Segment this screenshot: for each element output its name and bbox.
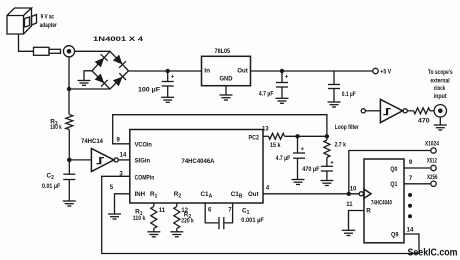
ground R2 (170, 232, 183, 237)
resistor R2 220k (pin 12) (174, 203, 194, 232)
svg-text:GND: GND (220, 76, 233, 83)
svg-text:Out: Out (237, 67, 248, 74)
wire jack to bridge top (75, 50, 110, 52)
wire node to inverter input (69, 159, 91, 161)
svg-text:1N4001 X 4: 1N4001 X 4 (93, 36, 144, 43)
resistor 15k (269, 133, 285, 149)
ground 4.7uF supply (276, 87, 289, 103)
svg-text:10: 10 (350, 186, 357, 192)
Q9 pin 14 label (407, 227, 414, 233)
svg-text:11: 11 (346, 202, 353, 208)
svg-text:+: + (285, 75, 289, 81)
svg-text:COMPin: COMPin (135, 175, 155, 182)
junction R3/C2/inverter node (67, 158, 72, 163)
X1024 terminal (425, 140, 439, 153)
ground R1 (147, 232, 160, 237)
svg-text:15 k: 15 k (270, 142, 281, 149)
ground at bridge left (78, 71, 93, 86)
ground C2 (63, 180, 76, 207)
wire bridge to regulator (129, 70, 202, 72)
junction C4 node (166, 69, 170, 73)
capacitor C1 0.001 uF (pins 6-7) (205, 203, 264, 229)
BNC connector to scope (428, 69, 453, 117)
schmitt trigger buffer U3 (380, 99, 407, 122)
VCO out wire pin 4 (263, 186, 359, 194)
svg-text:74HC14: 74HC14 (81, 138, 103, 145)
power jack J1 (63, 46, 74, 57)
loop filter label (335, 124, 359, 131)
wire jack down to bottom node (68, 57, 70, 89)
ground BNC (434, 117, 447, 130)
svg-text:9 V ac: 9 V ac (41, 13, 55, 20)
barrel plug (34, 47, 61, 55)
svg-text:14: 14 (407, 227, 414, 233)
Q1 wire pin 7 (404, 176, 431, 184)
resistor R3 100k (50, 89, 73, 158)
wire adapter to plug (19, 34, 34, 51)
svg-text:To scope's: To scope's (428, 69, 453, 76)
svg-text:11: 11 (159, 208, 166, 214)
capacitor 4.7 uF (supply) (259, 71, 289, 97)
svg-text:Out: Out (248, 191, 259, 198)
junction X1024 tap (347, 192, 351, 196)
wire inverter to SIGin pin 14 (118, 153, 130, 160)
svg-text:0.01 µF: 0.01 µF (42, 183, 60, 190)
junction C5 node (280, 69, 284, 73)
ground 0.1uF (328, 89, 341, 108)
VCO control wire (pin 9 net) (113, 115, 327, 144)
svg-text:SIGin: SIGin (135, 157, 151, 164)
svg-text:adapter: adapter (40, 22, 58, 29)
svg-text:Q1: Q1 (390, 181, 397, 188)
svg-text:470 µF: 470 µF (302, 166, 319, 173)
svg-text:INH: INH (135, 191, 146, 198)
watermark (408, 247, 458, 258)
ellipsis outputs omitted (408, 193, 412, 218)
reset wire pin 11 (346, 202, 364, 230)
ground reset (342, 230, 356, 235)
ground 100uF (161, 86, 174, 102)
PC2 wire pin 13 (262, 127, 269, 137)
9 V ac adapter (7, 8, 57, 34)
resistor 470 (414, 108, 431, 125)
X256 terminal (427, 174, 438, 187)
capacitor 0.1 uF (328, 71, 356, 98)
svg-text:SeekIC.com: SeekIC.com (408, 247, 458, 258)
svg-text:In: In (204, 67, 210, 74)
svg-text:220 k: 220 k (181, 218, 194, 225)
junction node A (295, 134, 299, 138)
wire R5 to BNC (430, 110, 434, 112)
junction bottom node (67, 87, 71, 91)
svg-text:13: 13 (262, 127, 269, 133)
svg-text:4.7 µF: 4.7 µF (259, 90, 274, 97)
svg-text:+: + (171, 74, 175, 80)
svg-text:X512: X512 (427, 158, 437, 165)
wire input to buffer (365, 110, 380, 112)
ground 470uF (320, 171, 333, 186)
svg-text:X1024: X1024 (425, 140, 439, 147)
bridge rectifier 1N4001 X 4 (92, 36, 144, 89)
resistor R1 110k (pin 11) (133, 203, 166, 232)
svg-text:Loop filter: Loop filter (335, 124, 359, 131)
capacitor 4.7 uF (loop) (276, 136, 305, 162)
svg-text:clock: clock (434, 85, 446, 92)
X1024 output wire (349, 151, 431, 194)
Q0 wire pin 9 (404, 160, 431, 168)
wire 15k to loop filter nodes (285, 135, 327, 137)
svg-text:2.7 k: 2.7 k (335, 142, 347, 149)
resistor 2.7k (324, 136, 346, 166)
svg-text:100 k: 100 k (50, 124, 62, 131)
capacitor 470 uF (302, 160, 334, 173)
COMPin feedback wire (pin 3 net) (102, 171, 419, 253)
ground INH (108, 214, 121, 219)
wire buffer to R5 (407, 110, 413, 112)
svg-text:Q9: Q9 (391, 231, 399, 238)
svg-text:74HC4046A: 74HC4046A (182, 158, 215, 165)
counter U4 74HC4040 (350, 159, 404, 243)
svg-text:+: + (330, 160, 334, 166)
svg-text:0.001 µF: 0.001 µF (241, 217, 264, 224)
svg-text:74HC4040: 74HC4040 (371, 201, 392, 207)
capacitor 100 uF (138, 71, 175, 94)
svg-text:78L05: 78L05 (215, 48, 231, 55)
schmitt inverter U1 74HC14 (81, 138, 118, 172)
svg-text:14: 14 (120, 153, 127, 159)
wire node to bridge bottom (69, 88, 110, 90)
IC U1 74HC4046A (130, 130, 263, 204)
ground 4.7uF loop (292, 158, 305, 184)
svg-text:PC2: PC2 (249, 135, 260, 142)
svg-text:input: input (434, 93, 448, 100)
+5 V terminal (373, 68, 392, 75)
svg-text:+: + (301, 147, 305, 153)
svg-text:+5 V: +5 V (380, 68, 391, 75)
svg-text:4.7 µF: 4.7 µF (276, 155, 291, 162)
svg-text:X256: X256 (427, 174, 438, 181)
svg-text:external: external (430, 77, 449, 84)
regulator U2 78L05 (202, 48, 251, 86)
ground regulator (220, 86, 233, 100)
schmitt buffer U3 input terminal (361, 109, 365, 113)
svg-text:VCOin: VCOin (135, 141, 152, 148)
svg-text:Q0: Q0 (390, 166, 397, 173)
junction node B (325, 134, 329, 138)
svg-text:100 µF: 100 µF (138, 87, 160, 94)
svg-text:0.1 µF: 0.1 µF (342, 91, 356, 98)
svg-text:110 k: 110 k (133, 215, 146, 222)
INH wire pin 5 (110, 185, 130, 214)
X512 terminal (427, 158, 437, 171)
svg-text:470: 470 (418, 117, 430, 124)
svg-text:R: R (366, 208, 371, 215)
capacitor C2 0.01 uF (42, 160, 75, 190)
+5V rail wire (251, 70, 373, 72)
